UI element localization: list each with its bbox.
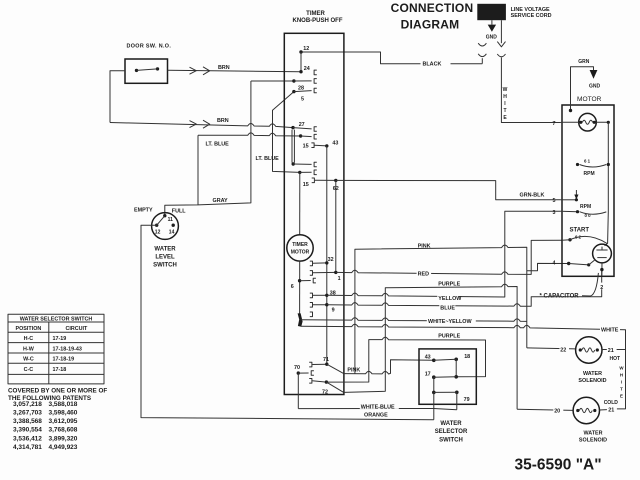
connector chevron GND 2 bbox=[478, 54, 486, 57]
svg-text:H-W: H-W bbox=[23, 346, 35, 352]
timer contact 32 bbox=[325, 261, 328, 264]
svg-text:I: I bbox=[504, 101, 506, 107]
svg-text:E: E bbox=[620, 393, 623, 398]
timer contact 72 bbox=[325, 380, 328, 383]
svg-text:WHITE-BLUE: WHITE-BLUE bbox=[361, 404, 395, 410]
svg-text:BRN: BRN bbox=[217, 118, 229, 124]
wire PINK branch to motor pin 4 bbox=[527, 263, 569, 270]
connector chevron GND 1 bbox=[478, 43, 486, 46]
label YELLOW bbox=[437, 294, 458, 300]
timer box bbox=[284, 33, 344, 394]
svg-text:BRN: BRN bbox=[218, 65, 230, 71]
svg-text:3,588,018: 3,588,018 bbox=[49, 401, 78, 408]
wire to contact 38 bbox=[313, 294, 327, 296]
linkage bar 27 to lower contact bbox=[292, 130, 294, 163]
svg-text:MOTOR: MOTOR bbox=[577, 96, 602, 103]
label BRN lower bbox=[217, 116, 232, 122]
connector chevron BRN lower bbox=[203, 120, 210, 128]
svg-text:GRN-BLK: GRN-BLK bbox=[520, 192, 545, 198]
hot solenoid circle bbox=[576, 337, 602, 363]
timer contact 62 bbox=[334, 179, 337, 182]
svg-text:17-19: 17-19 bbox=[53, 336, 67, 342]
timer contact 71 bbox=[325, 363, 328, 366]
water selector table frame bbox=[8, 314, 104, 384]
wire WHITE-BLUE from timer 70 bbox=[298, 409, 457, 410]
cold solenoid coil dots bbox=[576, 409, 579, 412]
ground stem from service cord bbox=[491, 20, 493, 24]
timer contact RED (1) bbox=[334, 271, 337, 274]
blade 72 bbox=[326, 382, 343, 392]
door switch contact left bbox=[135, 69, 138, 72]
timer contact 12 bbox=[299, 50, 302, 53]
junction dot right of winding bbox=[607, 121, 610, 124]
open contact 24 bbox=[314, 70, 317, 75]
ground arrow motor bbox=[590, 70, 598, 79]
wire 5 stub bbox=[294, 91, 312, 92]
svg-text:LT. BLUE: LT. BLUE bbox=[206, 141, 230, 147]
label BRN upper bbox=[218, 63, 233, 69]
timer contact 15a bbox=[299, 134, 302, 137]
door switch contact right bbox=[156, 67, 159, 70]
svg-text:WATER: WATER bbox=[154, 246, 176, 252]
link blade4 to capacitor bbox=[589, 259, 596, 265]
svg-text:W-C: W-C bbox=[23, 357, 34, 363]
svg-text:3,057,218: 3,057,218 bbox=[13, 401, 42, 408]
svg-text:H-C: H-C bbox=[24, 336, 34, 342]
svg-text:WHITE~YELLOW: WHITE~YELLOW bbox=[428, 319, 472, 325]
water level terminal 12 bbox=[155, 224, 158, 227]
svg-text:H: H bbox=[503, 94, 507, 100]
svg-text:C-C: C-C bbox=[24, 367, 34, 373]
label BLACK bbox=[421, 59, 451, 66]
arrow on BRN wire bbox=[190, 67, 197, 74]
cold solenoid coil squiggle bbox=[579, 408, 592, 412]
svg-text:11: 11 bbox=[168, 217, 174, 223]
svg-text:SELECTOR: SELECTOR bbox=[435, 429, 468, 435]
timer link bar contact bbox=[292, 162, 295, 165]
label BLUE bbox=[439, 303, 455, 309]
selector terminal F bbox=[455, 391, 459, 395]
svg-text:24: 24 bbox=[304, 66, 310, 72]
wire contact 28 stub bbox=[251, 80, 294, 82]
svg-text:POSITION: POSITION bbox=[16, 326, 42, 332]
timer contact 70 bbox=[297, 371, 300, 374]
svg-text:PINK: PINK bbox=[418, 243, 431, 249]
label 20 bbox=[553, 406, 563, 412]
selector right link 18 to D bbox=[455, 359, 457, 377]
start arc bbox=[570, 236, 607, 243]
svg-text:COVERED BY ONE OR MORE OF: COVERED BY ONE OR MORE OF bbox=[8, 388, 107, 395]
selector blade E-F bbox=[434, 391, 457, 393]
wire to BLUE contact bbox=[313, 304, 327, 306]
wire riser to hot solenoid 22 bbox=[527, 348, 576, 349]
vertical 62 line to RED contact bbox=[335, 180, 337, 272]
svg-text:12: 12 bbox=[303, 46, 309, 52]
svg-text:KNOB-PUSH OFF: KNOB-PUSH OFF bbox=[293, 18, 343, 24]
wire riser water level 11 to LT BLUE bbox=[197, 135, 199, 205]
svg-text:27: 27 bbox=[299, 122, 305, 128]
water level switch circle bbox=[152, 213, 179, 240]
open contact 38 row bbox=[310, 293, 313, 298]
wire link bar stub bbox=[293, 163, 311, 165]
svg-text:2: 2 bbox=[600, 285, 603, 291]
selector terminal 17 bbox=[432, 375, 436, 379]
svg-text:RPM: RPM bbox=[584, 171, 595, 177]
wire through main winding bbox=[561, 121, 608, 123]
rpm arc 1 bbox=[580, 165, 607, 168]
open contact 15a bbox=[314, 134, 317, 139]
wire to contact 43 bbox=[314, 144, 326, 147]
svg-text:COLD: COLD bbox=[604, 400, 619, 406]
blade 71 bbox=[327, 364, 344, 373]
svg-text:GRAY: GRAY bbox=[213, 198, 228, 204]
wire dot72 riser and PURPLE lower to selector bbox=[326, 337, 485, 382]
timer contact 15b (LT BLUE feed) bbox=[298, 171, 301, 174]
line stem white service bbox=[500, 20, 502, 43]
timer contact BLUE (9) bbox=[325, 303, 328, 306]
wire WHITE-YELLOW from blade blob bbox=[301, 318, 527, 322]
selector terminal E bbox=[432, 391, 436, 395]
svg-text:22: 22 bbox=[560, 348, 566, 354]
open contact 62 row bbox=[312, 178, 315, 183]
svg-text:LEVEL: LEVEL bbox=[155, 254, 175, 260]
svg-text:43: 43 bbox=[425, 354, 431, 360]
start contact dot bbox=[568, 238, 571, 241]
label pin 2 bbox=[599, 283, 606, 290]
arrow contact motor mid bbox=[575, 190, 577, 198]
wire WHITE from blob to hot solenoid 21 bbox=[301, 324, 626, 349]
svg-text:5: 5 bbox=[553, 198, 556, 204]
svg-text:EMPTY: EMPTY bbox=[134, 207, 153, 213]
svg-text:* CAPACITOR: * CAPACITOR bbox=[540, 294, 580, 300]
capacitor minus chord bbox=[597, 257, 606, 259]
wire pin 5 into motor bbox=[561, 199, 577, 201]
wire riser to cold solenoid 20 bbox=[517, 409, 573, 410]
wire BRN lower to timer 27 with crossings bbox=[110, 123, 293, 128]
svg-text:15: 15 bbox=[303, 182, 309, 188]
svg-text:17-18-19: 17-18-19 bbox=[53, 357, 75, 363]
timer contact 6 bbox=[298, 279, 301, 282]
svg-text:SOLENOID: SOLENOID bbox=[578, 378, 606, 384]
svg-text:WATER: WATER bbox=[583, 371, 602, 377]
timer contact 27 bbox=[291, 126, 294, 129]
main winding dot left bbox=[579, 121, 582, 124]
selector blade 43-18 bbox=[434, 359, 456, 360]
hot solenoid coil dots bbox=[579, 348, 582, 351]
svg-text:3: 3 bbox=[553, 210, 556, 216]
blade 4 contact dot bbox=[587, 263, 590, 266]
wire start to red riser bbox=[562, 239, 570, 241]
wire 28 stub bbox=[294, 80, 312, 82]
open contact 70 bbox=[311, 371, 314, 376]
svg-text:6 1: 6 1 bbox=[584, 158, 591, 163]
capacitor plus chord bbox=[596, 247, 607, 250]
label WHITE-BLUE bbox=[360, 403, 399, 409]
wire 62 to motor pin 5 GRN-BLK bbox=[336, 180, 561, 199]
open contact 72 row bbox=[309, 379, 312, 384]
svg-text:4,314,781: 4,314,781 bbox=[13, 444, 42, 451]
svg-text:71: 71 bbox=[323, 357, 329, 363]
contact dot pin5 bbox=[575, 198, 578, 201]
main winding circle bbox=[579, 113, 597, 131]
svg-text:72: 72 bbox=[322, 390, 328, 396]
svg-text:WHITE: WHITE bbox=[601, 328, 619, 334]
timer contact 24 bbox=[299, 70, 302, 73]
svg-text:35-6590 "A": 35-6590 "A" bbox=[515, 456, 602, 473]
wire motor right bus bbox=[605, 122, 609, 246]
svg-text:WATER SELECTOR SWITCH: WATER SELECTOR SWITCH bbox=[20, 316, 93, 322]
svg-text:RPM: RPM bbox=[580, 204, 591, 210]
wire BLUE contact to motor pin 2 bbox=[327, 270, 602, 307]
selector blade 17-D bbox=[434, 376, 456, 378]
wire 6 stub bbox=[300, 280, 311, 282]
wire to RED contact bbox=[313, 271, 336, 273]
label WHITE-YELLOW bbox=[427, 317, 476, 323]
svg-text:SWITCH: SWITCH bbox=[153, 262, 177, 268]
wire 15b stub bbox=[300, 171, 312, 173]
blade blob white-yellow/white bbox=[298, 313, 303, 327]
svg-text:0 0: 0 0 bbox=[585, 213, 592, 218]
connector chevron BRN bbox=[203, 67, 210, 75]
svg-text:12: 12 bbox=[155, 230, 161, 236]
svg-text:GND: GND bbox=[589, 84, 601, 90]
rpm contact 2 left bbox=[576, 210, 579, 213]
selector link 17 to E bbox=[433, 377, 435, 392]
svg-text:3,899,320: 3,899,320 bbox=[49, 435, 78, 442]
arrow on BRN lower bbox=[190, 121, 197, 128]
open contact 71 row bbox=[309, 362, 312, 367]
open contact blade blob row bbox=[310, 312, 313, 317]
svg-text:H: H bbox=[620, 372, 623, 377]
open contact 32 row bbox=[310, 261, 313, 266]
open contact 43 row bbox=[311, 143, 314, 148]
water level terminal 14 bbox=[172, 224, 175, 227]
svg-text:E: E bbox=[503, 115, 507, 121]
wire timer motor to contact 6 and blade blob bbox=[299, 261, 301, 318]
svg-text:9: 9 bbox=[332, 308, 335, 314]
svg-text:3,388,568: 3,388,568 bbox=[13, 418, 42, 425]
label ORANGE bbox=[363, 411, 388, 417]
contact GRN inside motor bbox=[569, 109, 572, 112]
timer contact 28 bbox=[292, 79, 295, 82]
svg-text:YELLOW: YELLOW bbox=[438, 296, 462, 302]
rpm contact 1 left bbox=[576, 163, 579, 166]
hot solenoid coil squiggle bbox=[582, 348, 595, 352]
svg-text:TIMER: TIMER bbox=[292, 242, 308, 248]
svg-text:FULL: FULL bbox=[172, 208, 186, 214]
open contact RED row bbox=[310, 271, 313, 276]
svg-text:DIAGRAM: DIAGRAM bbox=[401, 18, 460, 32]
motor box bbox=[562, 105, 614, 276]
svg-text:ORANGE: ORANGE bbox=[364, 413, 388, 419]
selector terminal D bbox=[454, 375, 458, 379]
svg-text:5: 5 bbox=[301, 97, 304, 103]
svg-text:T: T bbox=[620, 386, 623, 391]
wire timer motor feed vertical bbox=[299, 172, 301, 234]
door switch blade bbox=[137, 69, 158, 71]
svg-text:43: 43 bbox=[332, 140, 338, 146]
wire white link hot21 to cold21 bbox=[617, 350, 626, 409]
wire GRAY water level to riser bbox=[165, 81, 251, 216]
wire to contact 72 bbox=[312, 381, 326, 382]
svg-text:BLACK: BLACK bbox=[423, 61, 442, 67]
svg-text:17-18: 17-18 bbox=[53, 367, 67, 373]
wire RED from timer to motor start bbox=[336, 240, 562, 274]
timer contact 5 bbox=[292, 90, 295, 93]
capacitor leader line bbox=[582, 273, 598, 296]
svg-text:17-18-19-43: 17-18-19-43 bbox=[53, 346, 82, 352]
capacitor circle bbox=[593, 244, 612, 263]
wire terminal 12 down and right (orange run) bbox=[141, 225, 434, 420]
wire GRN to ground bbox=[571, 67, 594, 111]
wire hot 21 stub bbox=[602, 349, 626, 351]
svg-text:3,768,608: 3,768,608 bbox=[49, 427, 78, 434]
wire contact 70 riser to white-blue bbox=[297, 373, 299, 409]
svg-text:3,390,554: 3,390,554 bbox=[13, 427, 42, 434]
svg-text:PURPLE: PURPLE bbox=[438, 281, 460, 287]
svg-text:3,536,412: 3,536,412 bbox=[13, 435, 42, 442]
svg-text:LT. BLUE: LT. BLUE bbox=[256, 156, 280, 162]
svg-text:TIMER: TIMER bbox=[306, 11, 325, 17]
selector switch box bbox=[419, 349, 476, 404]
svg-text:6: 6 bbox=[291, 284, 294, 290]
pin 4 contact dot bbox=[567, 262, 570, 265]
svg-text:SERVICE CORD: SERVICE CORD bbox=[511, 13, 552, 19]
wire LT BLUE lower riser from contact 5 blade bbox=[273, 92, 300, 173]
svg-text:GRN: GRN bbox=[578, 59, 590, 65]
wire 15a stub bbox=[301, 135, 312, 138]
wire blade72 riser and PURPLE to cold solenoid bbox=[344, 284, 517, 409]
svg-text:I: I bbox=[621, 379, 622, 384]
svg-text:W: W bbox=[503, 87, 508, 93]
wire capacitor bottom to pin 2 bbox=[601, 263, 603, 276]
wire pink blade71 to selector 43 bbox=[344, 360, 434, 374]
water level terminal 11 bbox=[163, 214, 166, 217]
service cord block bbox=[477, 4, 506, 20]
timer motor circle bbox=[287, 235, 313, 261]
svg-text:RED: RED bbox=[418, 271, 429, 277]
wire 27 stub bbox=[293, 128, 312, 129]
wire LT BLUE upper to timer bbox=[198, 133, 301, 136]
cold solenoid circle bbox=[573, 397, 599, 423]
open contact 6 bbox=[313, 278, 316, 283]
connector chevron white bbox=[497, 54, 505, 57]
wire pin 3 into motor bbox=[561, 210, 578, 212]
svg-text:WATER: WATER bbox=[583, 430, 602, 436]
selector terminal 18 bbox=[454, 358, 458, 362]
vertical 43 line through 32 38 to 71 bbox=[326, 146, 328, 364]
svg-text:17: 17 bbox=[425, 371, 431, 377]
timer contact 38 bbox=[325, 294, 328, 297]
stub chevron to black wire bbox=[481, 58, 483, 64]
wire BLACK from timer 12 to service connector bbox=[301, 52, 482, 64]
svg-text:21: 21 bbox=[608, 408, 614, 414]
svg-text:79: 79 bbox=[464, 397, 470, 403]
svg-text:CONNECTION: CONNECTION bbox=[391, 1, 474, 15]
svg-text:4,949,923: 4,949,923 bbox=[49, 444, 78, 451]
svg-text:SOLENOID: SOLENOID bbox=[579, 437, 607, 443]
wire 12 to 24 bbox=[300, 52, 302, 72]
ground arrow bbox=[488, 25, 496, 32]
svg-text:3,267,703: 3,267,703 bbox=[13, 410, 42, 417]
wire PINK from riser to motor pin 4 and hot solenoid bbox=[355, 245, 527, 374]
label 22 bbox=[560, 346, 570, 352]
wire BRN door switch to timer 24 bbox=[168, 70, 302, 71]
door switch box bbox=[125, 59, 168, 83]
svg-text:3,612,095: 3,612,095 bbox=[49, 418, 78, 425]
svg-text:7: 7 bbox=[553, 121, 556, 127]
selector F stub down bbox=[456, 392, 458, 409]
open contact link row bbox=[314, 162, 317, 167]
svg-text:4: 4 bbox=[553, 261, 556, 267]
water level blade 12-11 bbox=[157, 216, 165, 225]
svg-text:MOTOR: MOTOR bbox=[291, 249, 310, 255]
svg-text:20: 20 bbox=[554, 408, 560, 414]
svg-text:15: 15 bbox=[303, 143, 309, 149]
timer contact 43 bbox=[325, 144, 328, 147]
open contact 28 bbox=[314, 79, 317, 84]
svg-text:WATER: WATER bbox=[440, 421, 462, 427]
svg-text:18: 18 bbox=[464, 354, 470, 360]
main winding dot right bbox=[593, 121, 596, 124]
wire WHITE service vertical down to motor pin 7 bbox=[501, 57, 561, 122]
svg-text:T: T bbox=[503, 108, 506, 114]
open contact 27 bbox=[314, 127, 317, 132]
svg-text:BLUE: BLUE bbox=[440, 305, 455, 311]
wire to contact 62 bbox=[315, 179, 336, 181]
svg-text:W: W bbox=[619, 365, 624, 370]
svg-text:14: 14 bbox=[169, 230, 175, 236]
wire to contact 71 bbox=[312, 363, 327, 365]
label WHITE top right bbox=[600, 324, 620, 330]
wire cold 21 stub bbox=[600, 409, 607, 411]
main winding coil squiggle bbox=[582, 120, 592, 124]
svg-text:PINK: PINK bbox=[347, 367, 360, 373]
svg-text:DOOR SW. N.O.: DOOR SW. N.O. bbox=[127, 43, 172, 49]
svg-text:PURPLE: PURPLE bbox=[438, 334, 460, 340]
arrowhead white line bbox=[497, 42, 505, 47]
selector E riser down bbox=[433, 392, 435, 419]
wire YELLOW contact 38 to motor pin 3 bbox=[327, 211, 561, 297]
svg-text:HOT: HOT bbox=[610, 356, 621, 362]
selector terminal 43 bbox=[432, 359, 436, 363]
open contact BLUE row bbox=[310, 303, 313, 308]
svg-text:21: 21 bbox=[608, 348, 614, 354]
open contact 15b bbox=[314, 170, 317, 175]
wire to contact 32 bbox=[313, 262, 327, 264]
svg-text:START: START bbox=[570, 228, 590, 234]
svg-text:GND: GND bbox=[486, 34, 498, 40]
blade pin 4 bbox=[569, 264, 589, 265]
svg-text:1: 1 bbox=[338, 276, 341, 282]
rpm arc 2 bbox=[580, 212, 607, 215]
svg-text:32: 32 bbox=[328, 257, 334, 263]
svg-text:70: 70 bbox=[294, 365, 300, 371]
capacitor bottom dot bbox=[600, 268, 603, 271]
label RED bbox=[417, 270, 432, 276]
svg-text:3,598,460: 3,598,460 bbox=[49, 410, 78, 417]
svg-text:SWITCH: SWITCH bbox=[439, 438, 463, 444]
wire door switch left down bbox=[110, 71, 125, 123]
open contact 5 bbox=[314, 88, 317, 93]
wire 70 stub bbox=[298, 372, 308, 374]
rpm contact 1 right bbox=[607, 163, 610, 166]
svg-text:CIRCUIT: CIRCUIT bbox=[65, 326, 88, 332]
